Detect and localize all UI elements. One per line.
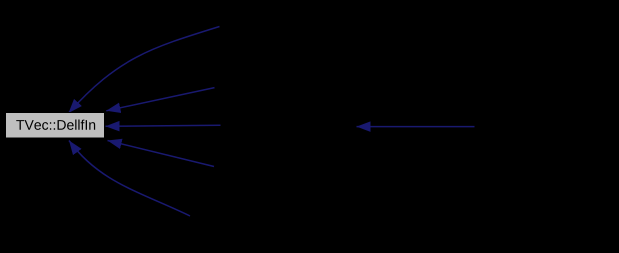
wire edge from caller 4: [108, 141, 215, 167]
wire edge from caller 3: [106, 125, 221, 126]
wire edge from caller 1 (curved): [69, 27, 220, 114]
wire edge mid-right (caller of caller 3): [357, 126, 475, 128]
node TVec::DellfIn: [6, 113, 105, 139]
wire edge from caller 2: [106, 88, 214, 111]
wire edge from caller 5 (curved): [69, 141, 190, 217]
